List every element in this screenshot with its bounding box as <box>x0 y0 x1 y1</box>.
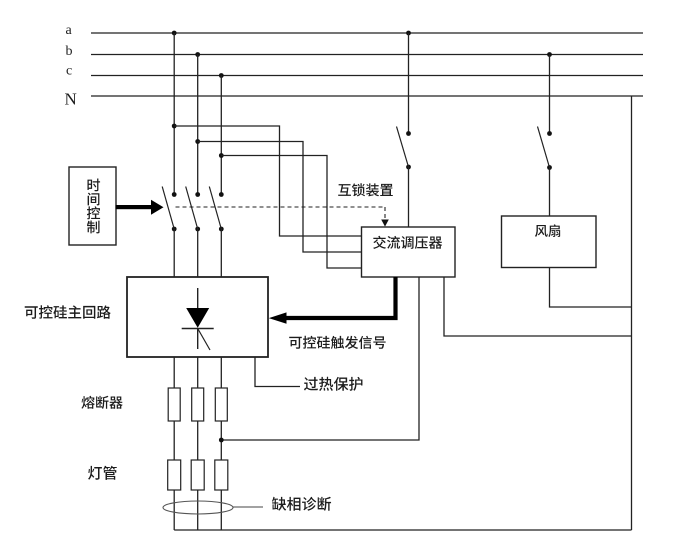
label "缺相诊断" (phase loss diagnosis) <box>272 497 331 511</box>
lamp tube L1 <box>168 460 181 490</box>
junction dot phase a tap-off <box>172 31 177 36</box>
label "熔断器" (fuse) <box>81 396 122 409</box>
fuse FU3 <box>215 388 227 421</box>
wire fuse b to lamp b <box>197 421 199 460</box>
wire switch pole b to SCR box <box>197 229 199 277</box>
wire fuse c to lamp c <box>220 421 222 460</box>
junction dot regulator tap a <box>172 124 177 129</box>
wire tap b to regulator <box>198 142 362 253</box>
wire phase c drop <box>220 76 222 195</box>
phase-loss sensing ellipse <box>163 501 233 514</box>
svg-text:b: b <box>66 44 73 59</box>
svg-text:N: N <box>65 90 77 109</box>
junction dot fan feed on line b <box>547 52 552 57</box>
wire tap a to regulator <box>174 126 361 236</box>
fuse FU2 <box>192 388 204 421</box>
junction dot regulator feed on line a <box>406 31 411 36</box>
wire SCR box to fuse a <box>173 357 175 388</box>
svg-text:c: c <box>66 64 72 79</box>
junction dot regulator tap b <box>195 139 200 144</box>
box time controller <box>69 167 116 245</box>
label "交流调压器" (AC voltage regulator) <box>373 236 442 249</box>
phase bus line a <box>91 32 643 34</box>
wire phase a drop <box>173 33 175 195</box>
fuse FU1 <box>168 388 180 421</box>
wire SCR box to fuse b <box>197 357 199 388</box>
junction dot phase c tap-off <box>219 73 224 78</box>
box SCR main circuit <box>127 277 268 357</box>
neutral bus line N <box>91 95 643 97</box>
wire fan return to right bus <box>550 268 632 308</box>
wire lamp c to bottom bus <box>220 490 222 530</box>
wire right return bus <box>631 96 633 530</box>
label "可控硅主回路" (SCR main loop) <box>25 305 111 318</box>
wire regulator output to lamp junction <box>221 277 419 440</box>
thick trigger signal wire with arrowhead into SCR box <box>269 277 396 324</box>
switch S2 (regulator feed) <box>397 127 411 170</box>
wire phase b drop <box>197 55 199 195</box>
junction dot regulator tap c <box>219 153 224 158</box>
box AC voltage regulator <box>362 227 456 277</box>
switch QS pole c <box>209 187 223 232</box>
wire switch S2 to regulator box <box>408 167 410 227</box>
wire regulator output to right bus <box>444 277 632 336</box>
thick control arrow from time controller to switch <box>116 200 164 215</box>
phase bus line c <box>91 75 643 77</box>
lamp tube L3 <box>215 460 228 490</box>
box fan <box>502 216 597 268</box>
svg-text:a: a <box>66 23 73 38</box>
label "灯管" (lamp tube) <box>88 466 117 480</box>
switch QS pole a <box>162 187 176 232</box>
label "风扇" (fan) <box>535 224 560 237</box>
wire line b to switch S3 <box>549 55 551 134</box>
wire bottom return bus <box>174 529 631 531</box>
switch QS pole b <box>186 187 200 232</box>
lamp tube L2 <box>191 460 204 490</box>
label "互锁装置" (interlock device) <box>338 183 393 196</box>
label "可控硅触发信号" (SCR trigger signal) <box>289 336 385 349</box>
wire fuse a to lamp a <box>173 421 175 460</box>
label "时间控制" (time control) <box>87 179 100 234</box>
wire overheat protection tap <box>255 357 300 387</box>
wire switch pole a to SCR box <box>173 229 175 277</box>
wire lamp a to bottom bus <box>173 490 175 530</box>
wire ellipse to label <box>233 506 263 508</box>
wire switch S3 to fan box <box>549 168 551 217</box>
switch S3 (fan feed) <box>538 127 552 170</box>
junction dot phase b tap-off <box>195 52 200 57</box>
wire SCR box to fuse c <box>220 357 222 388</box>
wire tap c to regulator <box>221 156 361 269</box>
label "过热保护" (overheat protection) <box>304 377 363 391</box>
interlock dashed control line with arrowhead <box>176 207 389 227</box>
wire line a to switch S2 <box>408 33 410 134</box>
wire lamp b to bottom bus <box>197 490 199 530</box>
thyristor V1 <box>182 288 214 350</box>
phase bus line b <box>91 54 643 56</box>
junction dot phase-c sense node <box>219 438 224 443</box>
wire switch pole c to SCR box <box>220 229 222 277</box>
